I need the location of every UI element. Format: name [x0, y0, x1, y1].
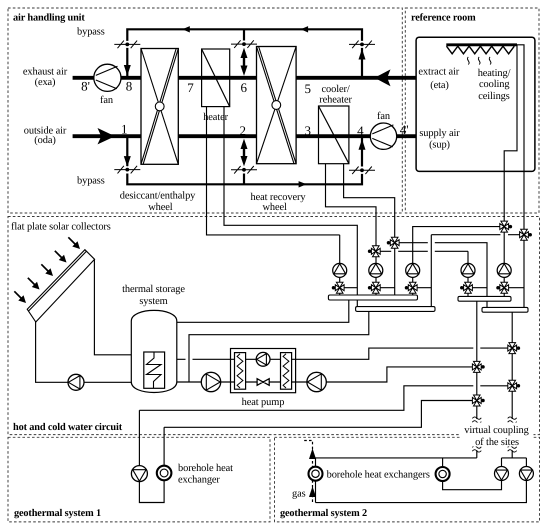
tank internal heat exchanger — [144, 352, 165, 388]
svg-text:of the sites: of the sites — [475, 437, 519, 448]
geothermal 2 pump G1 — [495, 467, 509, 481]
damper bottom-left bypass — [114, 166, 140, 174]
gas supply dashed line — [304, 441, 313, 503]
extract air arrow into exhaust duct — [375, 69, 391, 86]
top bypass flow arrow left 1 — [182, 26, 190, 32]
mid exchange double arrow bottom heads — [241, 139, 248, 149]
svg-text:heating/: heating/ — [478, 68, 511, 79]
virtual coupling break marks — [472, 417, 481, 423]
wire cooler pipe right down through valve VB column to manifold A — [344, 164, 395, 295]
svg-text:bypass: bypass — [77, 27, 105, 38]
wire geothermal system 2 pump G2 column and bottom return — [316, 458, 527, 503]
bottom bypass entry arrow (down) — [124, 156, 131, 167]
wire valve V4b side branch — [468, 287, 487, 289]
mid exchange double arrow top shaft — [243, 52, 245, 72]
wire valve VD left branch (gap at P5 column crossing) and riser to manifold B — [431, 235, 524, 307]
wire mid bypass drop bottom — [243, 174, 245, 185]
top bypass exit arrow (down into duct) — [124, 65, 131, 76]
gas arrow up 2 — [309, 486, 316, 497]
geothermal 2 pump G2 — [519, 467, 533, 481]
damper top-mid bypass — [231, 40, 257, 48]
manifold bar C — [458, 296, 511, 301]
svg-text:(exa): (exa) — [35, 77, 56, 88]
air handling unit box — [8, 8, 402, 213]
cooler/reheater — [319, 106, 349, 164]
heat recovery wheel — [257, 47, 297, 164]
wire geothermal 1 pump line to valve VH (gap at crossing) — [139, 386, 512, 411]
svg-text:8: 8 — [126, 79, 133, 94]
ceiling air squiggles — [467, 57, 491, 65]
pump P4 — [461, 263, 475, 277]
ceiling zigzag — [447, 46, 515, 54]
svg-text:8': 8' — [81, 79, 90, 94]
svg-text:geothermal system 1: geothermal system 1 — [14, 508, 101, 519]
svg-text:4': 4' — [400, 122, 409, 137]
heater — [202, 49, 230, 107]
wire valve V2b side branch — [376, 287, 395, 289]
svg-text:flat plate solar collectors: flat plate solar collectors — [11, 221, 111, 232]
valve V3b — [405, 282, 417, 293]
svg-text:cooler/: cooler/ — [322, 84, 350, 95]
wire mid bypass drop top — [243, 29, 245, 40]
damper bottom-mid bypass — [231, 166, 257, 174]
wire room ceiling pipe B down through valve VD to manifold D — [517, 45, 524, 308]
wire solar collector hot outlet to tank — [94, 259, 131, 355]
wire geothermal system 1 loop — [139, 410, 164, 502]
wire heat pump bottom line from tank to valve VE — [177, 367, 477, 382]
svg-text:3: 3 — [304, 123, 311, 138]
svg-text:6: 6 — [240, 80, 247, 95]
svg-text:4: 4 — [357, 123, 364, 138]
svg-text:bypass: bypass — [77, 176, 105, 187]
wire geothermal system 2 exchanger 2 column to pump G1 — [443, 458, 502, 490]
svg-text:(sup): (sup) — [429, 139, 450, 150]
manifold bar D — [482, 307, 528, 312]
wire manifold B down and left to heat pump return line — [189, 311, 369, 382]
geothermal system 1 box — [8, 437, 270, 522]
svg-text:wheel: wheel — [263, 202, 288, 213]
damper top-right bypass — [349, 41, 375, 49]
heat pump evaporator coil — [235, 353, 246, 390]
mid exchange double arrow top heads — [241, 48, 248, 58]
geothermal 2 borehole heat exchanger 2 — [436, 467, 450, 481]
svg-text:exhaust air: exhaust air — [23, 66, 68, 77]
thermal storage tank — [131, 310, 177, 392]
valve VH — [508, 380, 520, 391]
pump P1 — [333, 263, 347, 277]
hot and cold water circuit box — [8, 217, 540, 435]
svg-text:extract air: extract air — [418, 67, 459, 78]
manifold bar A — [328, 295, 417, 300]
heat pump circulation pump right — [307, 372, 326, 391]
valve VD — [520, 229, 532, 240]
svg-text:supply air: supply air — [419, 128, 460, 139]
pump P3 — [406, 263, 420, 277]
svg-text:reheater: reheater — [319, 95, 352, 106]
wire manifold A down to storage tank top connection — [177, 300, 349, 322]
wire valve V1b side branch — [340, 287, 358, 289]
geothermal 1 borehole heat exchanger — [157, 466, 172, 481]
mid exchange double arrow bottom shaft — [243, 143, 245, 162]
wire geothermal riser column 2 — [511, 311, 513, 419]
heat pump circulation pump left — [201, 372, 220, 391]
svg-text:wheel: wheel — [148, 202, 173, 213]
svg-text:virtual coupling: virtual coupling — [464, 425, 528, 436]
wire valve VA side branch to pump P4 column (gaps at crossings) — [376, 251, 468, 296]
svg-text:hot and cold water circuit: hot and cold water circuit — [13, 422, 123, 433]
fan F2 (supply) — [370, 123, 396, 149]
solar irradiation arrows — [66, 235, 83, 252]
svg-text:reference room: reference room — [411, 13, 476, 24]
wire heater pipe 1 to pump P1 column and manifold A — [207, 107, 340, 295]
wire bottom bypass duct — [127, 138, 362, 185]
svg-text:fan: fan — [377, 111, 391, 122]
wire valve V5b side branch — [504, 287, 524, 289]
valve VB — [387, 237, 399, 248]
svg-text:borehole heat exchangers: borehole heat exchangers — [327, 469, 430, 480]
heat pump outline — [231, 349, 296, 393]
svg-text:2: 2 — [240, 123, 247, 138]
solar pump — [68, 374, 84, 390]
manifold bar B — [356, 307, 435, 312]
gas arrow up 1 — [309, 448, 316, 459]
svg-text:ceilings: ceilings — [478, 91, 510, 102]
svg-text:gas: gas — [292, 488, 306, 499]
svg-text:5: 5 — [304, 81, 311, 96]
valve V4b — [460, 282, 472, 293]
svg-text:fan: fan — [100, 95, 114, 106]
valve VG — [508, 343, 520, 354]
reference room box — [405, 8, 539, 213]
top bypass entry arrow (up) — [359, 49, 366, 60]
geothermal 1 pump — [131, 466, 147, 482]
damper top-left bypass — [114, 41, 140, 49]
reference room wall — [416, 37, 535, 171]
wire valve VB side branch to riser into manifold D — [395, 243, 487, 308]
valve V2b — [368, 282, 380, 293]
svg-text:desiccant/enthalpy: desiccant/enthalpy — [120, 190, 196, 201]
valve V5b — [496, 282, 508, 293]
heat pump expansion valve — [257, 379, 269, 386]
svg-text:7: 7 — [187, 80, 194, 95]
outside air inlet arrow — [98, 128, 116, 144]
heat pump condenser coil — [281, 353, 292, 390]
solar collector panel — [27, 250, 94, 322]
wire valve V3b side branch — [413, 287, 432, 289]
geothermal system 2 box — [275, 437, 540, 522]
wire valve VC left branch to pump P3 column — [413, 227, 505, 295]
svg-text:system: system — [139, 296, 167, 307]
wire geothermal system 2 exchanger 1 column — [315, 458, 317, 503]
valve VA — [368, 246, 380, 257]
top bypass flow arrow left 2 — [301, 26, 309, 32]
wire geothermal 1 exchanger line to valve VF — [164, 401, 477, 428]
wire geothermal system 2 pump header — [502, 457, 527, 459]
heat pump compressor pump — [256, 352, 270, 366]
wire geothermal system 2 top header — [316, 457, 477, 459]
wire top bypass duct — [127, 29, 362, 76]
wire solar collector return with pump from tank — [36, 322, 132, 383]
valve VE — [472, 361, 484, 372]
geothermal 2 borehole heat exchanger 1 — [309, 467, 323, 481]
svg-text:heater: heater — [203, 112, 228, 123]
svg-text:cooling: cooling — [479, 79, 509, 90]
valve VF — [472, 395, 484, 406]
wire heat pump top line from tank through compressor to valve VG (gaps at crossings) — [177, 348, 512, 359]
svg-text:heat pump: heat pump — [242, 397, 285, 408]
wire virtual coupling stubs into geothermal system 2 — [477, 450, 512, 458]
valve V1b — [332, 282, 344, 293]
bottom bypass exit arrow (up into duct) — [359, 139, 366, 150]
svg-text:(eta): (eta) — [430, 80, 449, 91]
white patch behind virtual coupling text — [460, 423, 534, 447]
pump P5 — [497, 263, 511, 277]
svg-text:borehole heat: borehole heat — [178, 463, 233, 474]
pump P2 — [369, 263, 383, 277]
svg-text:exchanger: exchanger — [178, 474, 220, 485]
wire exhaust air duct (top) — [73, 76, 417, 80]
wire heater pipe 2 to vertical riser into manifold B — [224, 107, 357, 307]
valve VC — [500, 221, 512, 232]
desiccant/enthalpy wheel — [141, 49, 178, 165]
svg-text:geothermal system 2: geothermal system 2 — [280, 508, 367, 519]
bottom bypass flow arrow right — [299, 181, 307, 187]
svg-text:1: 1 — [121, 122, 128, 137]
heating/cooling ceiling bar — [446, 43, 517, 46]
svg-text:thermal storage: thermal storage — [122, 284, 185, 295]
wire supply/outside air duct (bottom) — [73, 134, 417, 138]
wire cooler pipe left down through valve VA, pump P2 column to manifold A — [326, 164, 377, 295]
damper bottom-right bypass — [349, 167, 375, 175]
wire geothermal riser column 1 — [476, 301, 478, 419]
fan F1 (exhaust) — [94, 64, 121, 91]
wire room ceiling pipe A down through valve VC, pump P5 column to manifold C — [504, 45, 517, 297]
svg-text:air handling unit: air handling unit — [13, 13, 85, 24]
svg-text:(oda): (oda) — [34, 135, 55, 146]
